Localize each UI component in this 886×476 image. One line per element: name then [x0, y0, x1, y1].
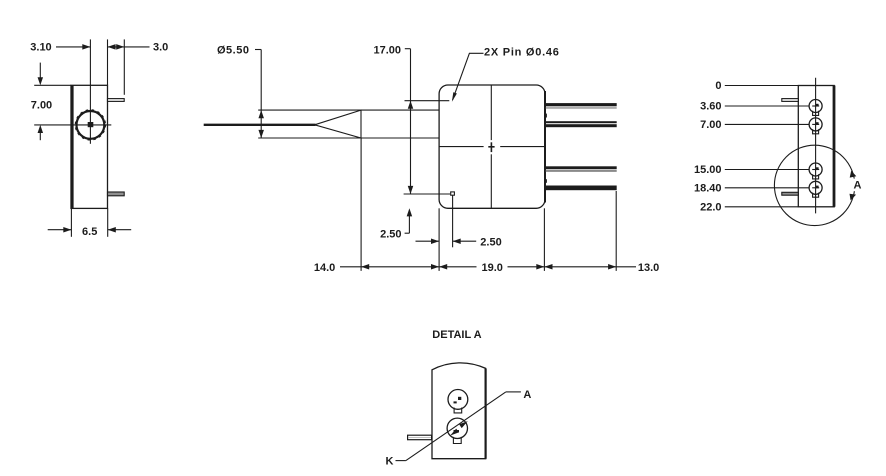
svg-text:2X Pin Ø0.46: 2X Pin Ø0.46 [484, 47, 560, 59]
svg-text:14.0: 14.0 [314, 262, 335, 274]
right view centerline [815, 78, 817, 214]
svg-text:DETAIL A: DETAIL A [432, 329, 481, 341]
leader K to A [386, 389, 532, 468]
svg-text:2.50: 2.50 [380, 228, 401, 240]
pin 3 [546, 166, 617, 172]
extension line top pin hole [405, 100, 450, 102]
dimension 14.0 [314, 262, 477, 274]
dimension 7.00 [31, 63, 71, 141]
detail body outline [432, 363, 486, 459]
dimension 2.50 left [380, 208, 412, 240]
label 0 [715, 80, 798, 92]
rear pin A4 [809, 181, 822, 197]
svg-text:6.5: 6.5 [82, 226, 97, 238]
boot cone [315, 110, 361, 138]
extension line body left down [438, 208, 440, 271]
svg-text:0: 0 [715, 80, 721, 92]
dimension 3.0 [108, 41, 169, 53]
detail pin anode [448, 390, 468, 413]
label 7.00 [700, 119, 809, 131]
left view body [71, 85, 108, 208]
left view top pin tab [108, 99, 125, 102]
lens crosshair centerlines [34, 39, 111, 143]
svg-text:3.60: 3.60 [700, 101, 721, 113]
hole center extension down [452, 195, 454, 247]
svg-text:15.00: 15.00 [694, 164, 722, 176]
svg-text:7.00: 7.00 [700, 119, 721, 131]
label 15.00 [694, 164, 809, 176]
extension line cone base down [360, 138, 362, 271]
svg-text:K: K [386, 456, 394, 468]
body edge nub upper [544, 114, 547, 118]
svg-text:13.0: 13.0 [638, 262, 659, 274]
label 22.0 [700, 201, 798, 213]
dimension 3.10 [30, 41, 90, 53]
rear pin A2 [809, 118, 822, 134]
svg-text:3.0: 3.0 [153, 41, 168, 53]
dimension diameter 5.50 [217, 44, 264, 138]
svg-text:A: A [854, 179, 862, 191]
pin 1 [546, 103, 617, 109]
detail tab [408, 435, 432, 440]
snout cylinder [361, 110, 439, 138]
dimension 19.0 [439, 262, 636, 274]
bottom pin hole square [451, 192, 455, 195]
dimension 13.0 [544, 262, 659, 274]
svg-text:A: A [523, 389, 531, 401]
svg-text:3.10: 3.10 [30, 41, 51, 53]
svg-text:2.50: 2.50 [480, 236, 501, 248]
body centerlines [439, 85, 545, 208]
extension line pin end down [615, 191, 617, 271]
body edge nub lower [544, 179, 547, 183]
lens bezel circle [76, 110, 106, 140]
detail circle A [774, 145, 861, 225]
rear pin A1 [809, 100, 822, 116]
label 18.40 [694, 182, 809, 194]
right view top tab [782, 99, 799, 102]
left view bottom pin tab [108, 192, 125, 196]
svg-text:17.00: 17.00 [373, 44, 401, 56]
dimension 17.00 [373, 44, 413, 194]
leader 2X Pin 0.46 [452, 47, 560, 102]
fiber pigtail [204, 124, 316, 126]
svg-text:7.00: 7.00 [31, 100, 52, 112]
extension line pin end up [123, 39, 125, 94]
extension line body right down [543, 208, 545, 271]
detail pin cathode [447, 418, 467, 443]
right view body [798, 86, 834, 207]
svg-text:22.0: 22.0 [700, 201, 721, 213]
main body [439, 85, 545, 208]
extension lines for diameter 5.50 [258, 110, 361, 138]
dimension 6.5 [48, 208, 132, 237]
pin 4 [546, 186, 617, 191]
svg-text:18.40: 18.40 [694, 182, 722, 194]
pin 2 [546, 121, 617, 127]
right view bottom tab [782, 192, 799, 195]
rear pin A3 [809, 163, 822, 179]
label 3.60 [700, 101, 809, 113]
extension line right edge up [107, 39, 109, 85]
svg-text:19.0: 19.0 [481, 262, 502, 274]
dimension 2.50 right [416, 236, 502, 248]
extension line bottom pin hole [404, 193, 451, 195]
svg-text:Ø5.50: Ø5.50 [217, 44, 249, 56]
